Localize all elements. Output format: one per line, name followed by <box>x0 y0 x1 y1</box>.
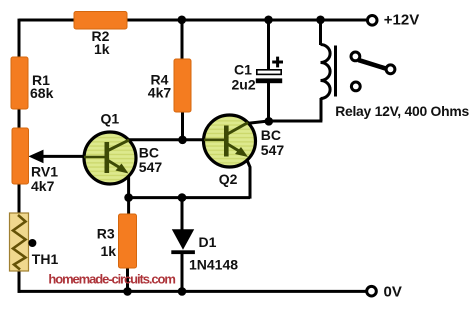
node top rail / R4 <box>178 15 187 24</box>
node top rail / C1 <box>264 15 273 24</box>
relay contact NO terminal <box>386 65 395 74</box>
relay switch blade <box>358 60 386 69</box>
resistor R4 <box>174 59 191 112</box>
wire RV1 wiper to Q1 base <box>40 155 86 158</box>
transistor Q1 collector stroke <box>108 140 129 151</box>
wire Q2 emitter down <box>247 160 250 199</box>
node TH1 terminal dot <box>28 239 36 247</box>
svg-text:R3: R3 <box>97 225 115 241</box>
wire top rail <box>19 19 366 22</box>
node D1 bottom / ground rail <box>178 287 187 296</box>
relay contact NC terminal <box>351 82 360 91</box>
terminal 0V <box>367 286 377 296</box>
svg-text:Relay 12V, 400 Ohms: Relay 12V, 400 Ohms <box>335 103 469 119</box>
svg-text:TH1: TH1 <box>32 251 59 267</box>
node Q1 emitter / R3 top <box>124 193 133 202</box>
transistor Q2 collector stroke <box>228 123 249 135</box>
svg-text:2u2: 2u2 <box>232 76 256 92</box>
capacitor C1 bottom plate <box>256 78 282 83</box>
svg-text:D1: D1 <box>199 234 217 250</box>
svg-text:547: 547 <box>261 142 285 158</box>
transistor Q1 body <box>84 132 136 184</box>
wire Q1 emitter down <box>127 172 129 198</box>
svg-text:homemade-circuits.com: homemade-circuits.com <box>48 272 175 287</box>
transistor Q1 base bar <box>105 142 110 173</box>
svg-text:BC: BC <box>261 127 281 143</box>
svg-text:0V: 0V <box>384 284 402 301</box>
transistor Q2 base lead inside <box>204 139 225 142</box>
transistor Q2 emitter stroke <box>228 144 242 153</box>
svg-text:Q1: Q1 <box>101 111 120 127</box>
relay coil <box>321 45 331 99</box>
diode D1 triangle <box>172 229 194 250</box>
wire emitter rail Q1 to Q2 <box>129 196 250 199</box>
wire D1 bottom lead <box>181 251 184 291</box>
RV1 wiper arrowhead <box>28 150 43 164</box>
svg-text:4k7: 4k7 <box>148 84 172 100</box>
transistor Q1 emitter stroke <box>108 161 122 170</box>
wire Q1 collector to Q2 base <box>126 138 206 141</box>
svg-text:Q2: Q2 <box>219 171 238 187</box>
transistor Q2 emitter arrowhead <box>235 147 248 157</box>
resistor R3 <box>119 214 137 268</box>
svg-text:+12V: +12V <box>384 12 419 29</box>
capacitor C1 top plate <box>257 70 281 75</box>
svg-text:1N4148: 1N4148 <box>189 257 238 273</box>
wire R4 top branch <box>181 20 184 59</box>
thermistor TH1 zigzag element <box>13 215 26 270</box>
wire Q2 collector lead <box>246 121 269 124</box>
svg-text:1k: 1k <box>94 41 110 57</box>
wire R4 bottom to collector-base node <box>181 112 184 140</box>
transistor Q1 emitter arrowhead <box>116 164 129 174</box>
transistor Q2 base bar <box>224 126 229 157</box>
transistor Q2 body <box>204 115 256 167</box>
svg-text:1k: 1k <box>101 243 117 259</box>
wire RV1 bottom to TH1 top <box>18 184 21 213</box>
wire C1 bottom to node <box>267 83 270 121</box>
wire D1 top lead <box>181 198 184 230</box>
node D1 top / emitter rail <box>178 193 187 202</box>
resistor R1 <box>11 57 28 109</box>
node R4 bottom / Q1 collector / Q2 base <box>178 136 187 145</box>
resistor R2 <box>74 12 127 30</box>
svg-text:4k7: 4k7 <box>31 178 55 194</box>
wire relay bottom to C1/Q2 node <box>269 120 323 123</box>
wire relay bottom down <box>320 98 323 121</box>
node R3 bottom / ground rail <box>123 287 132 296</box>
potentiometer RV1 body <box>12 128 29 184</box>
wire R3 top lead <box>127 198 130 214</box>
wire C1 top branch <box>267 20 270 70</box>
svg-text:C1: C1 <box>234 62 252 78</box>
terminal +12V <box>367 15 377 25</box>
relay core bar <box>334 46 337 97</box>
thermistor TH1 body <box>10 213 29 271</box>
relay contact common terminal <box>351 52 360 61</box>
diode D1 cathode bar <box>171 250 195 254</box>
wire R3 bottom lead <box>126 268 129 291</box>
wire R1 bottom to RV1 top <box>18 109 21 128</box>
svg-text:68k: 68k <box>30 85 54 101</box>
transistor Q1 base lead inside <box>84 156 105 159</box>
wire TH1 bottom to bottom rail <box>18 271 21 293</box>
svg-text:547: 547 <box>139 159 163 175</box>
capacitor C1 polarity plus sign <box>272 57 283 68</box>
wire bottom rail <box>18 290 366 293</box>
node top rail / relay <box>316 15 325 24</box>
wire relay top branch <box>319 20 322 45</box>
wire left rail segment R2 corner to R1 top <box>18 19 21 57</box>
node C1 bottom / Q2 collector / relay return <box>265 117 274 126</box>
